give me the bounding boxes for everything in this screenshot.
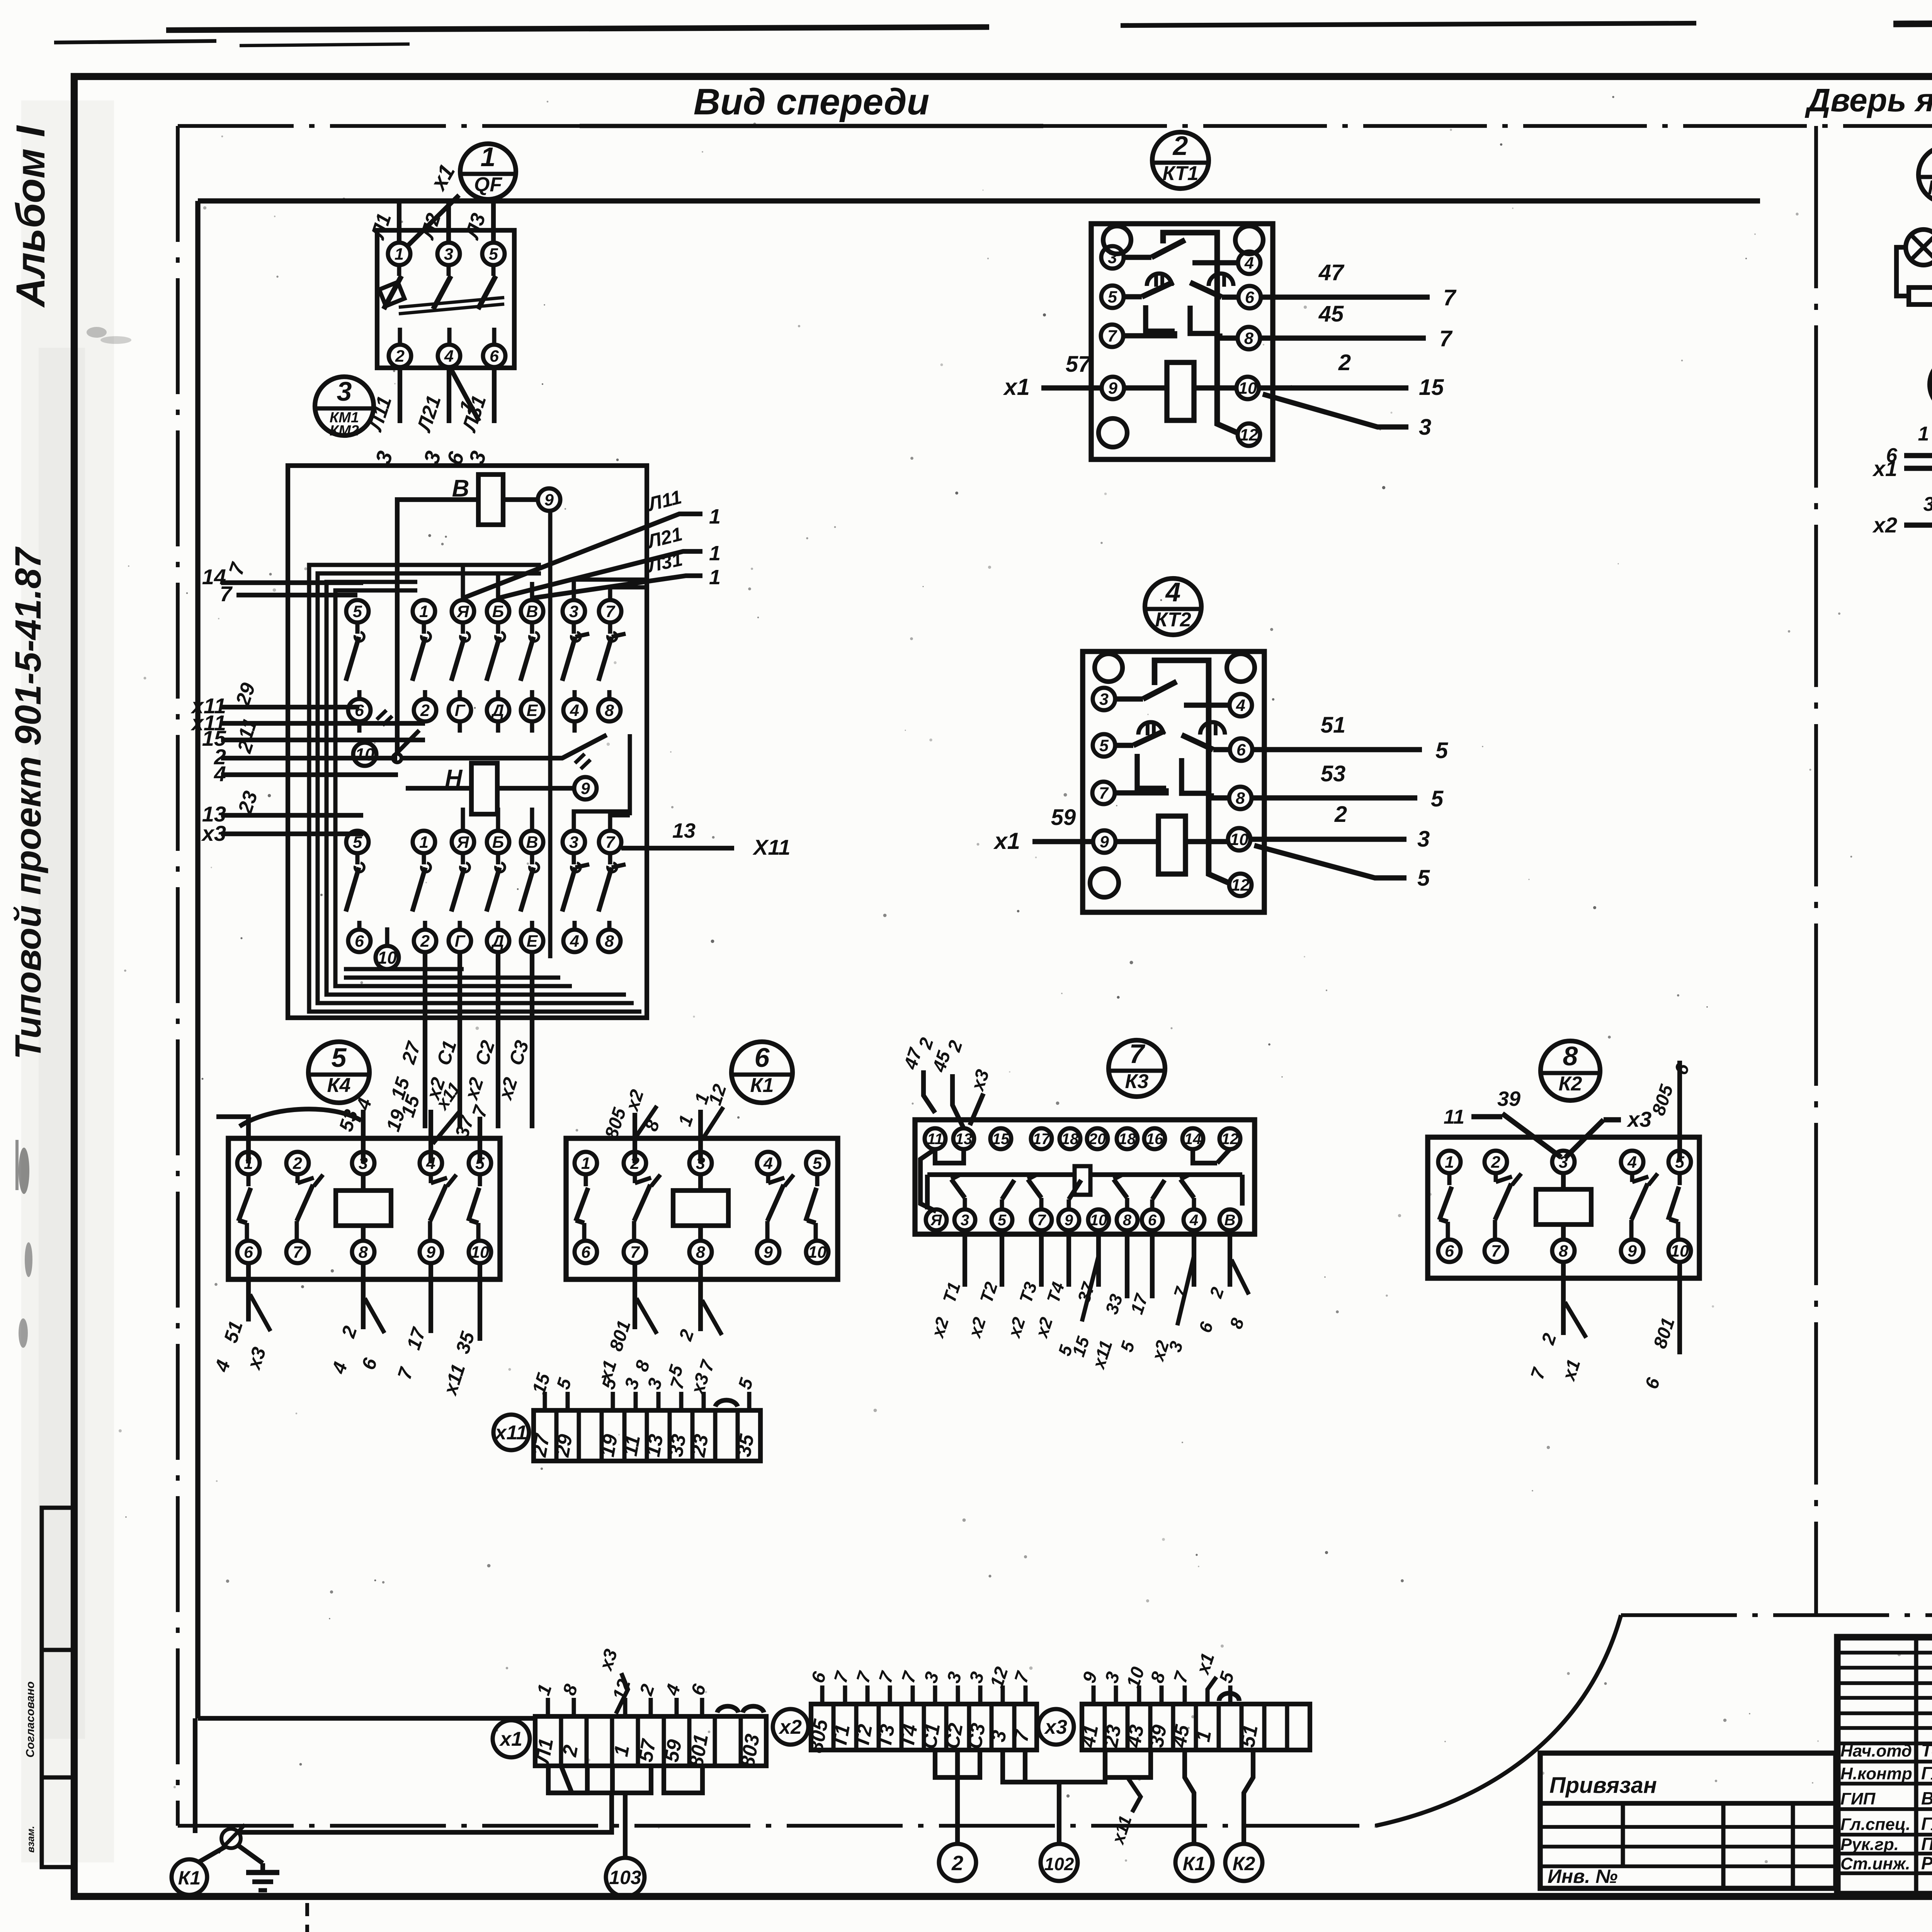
svg-text:2: 2 [951,1852,963,1875]
svg-text:В: В [526,602,538,621]
K3 wire 37/5/15 below pin10 [1096,1230,1101,1287]
svg-text:53: 53 [1321,761,1346,786]
svg-text:15: 15 [1419,375,1444,400]
svg-text:Л1: Л1 [531,1736,558,1767]
terminal strip х3 body [1082,1704,1310,1750]
K4 pin 3 [352,1152,374,1174]
svg-text:Альбом I: Альбом I [8,125,53,308]
K3 hooks pins 11-13 [935,1149,964,1163]
ground symbol [260,1863,265,1872]
х3 top stub 7 [1183,1685,1187,1704]
wire 47/7 from KT1 pin6 [1260,294,1430,299]
KM node junction [393,754,401,762]
wire L11-1 out of KM [463,514,702,598]
svg-text:39: 39 [1145,1723,1171,1749]
x2-x3 bottom bus [1003,1750,1105,1782]
relay designator 7/K3 [1109,1040,1165,1097]
K2 wire 805/6 above pin5 [1677,1061,1682,1162]
privyazan table [1540,1753,1836,1888]
K2 pin 6 [1438,1240,1461,1262]
panel outline corner curve [1376,1615,1621,1826]
svg-text:1: 1 [709,566,721,589]
svg-text:QF: QF [474,173,502,196]
KT1 pin 8 [1238,327,1260,349]
node 2 wire [955,1777,960,1844]
terminal strip х1 body [535,1716,766,1766]
KM pin 9 lower [574,777,597,799]
K1 wire 1/1/12 above pin3 [698,1110,703,1163]
node K1 ground [172,1859,207,1895]
svg-text:К2: К2 [1233,1853,1255,1874]
relay K2 body [1428,1137,1699,1278]
panel outline bottom-right dash-dot [1621,1613,1932,1617]
KM pin row 3 [346,831,369,853]
svg-text:х11: х11 [494,1422,527,1444]
svg-text:3: 3 [337,376,352,406]
x1 jumper arcs [717,1706,738,1713]
K3 left outer loop [920,1149,936,1211]
relay designator 6/K1 [731,1042,793,1103]
svg-text:8: 8 [1563,1041,1578,1071]
х11 top stub 5 [611,1392,615,1410]
svg-text:13: 13 [642,1432,668,1458]
K2 pin 10 [1668,1240,1691,1262]
svg-text:3: 3 [1923,493,1932,515]
svg-text:4: 4 [1244,254,1254,272]
K4 pin 9 [420,1241,442,1263]
svg-text:Дверь ящика ( вид со стороны м: Дверь ящика ( вид со стороны монтажа) [1805,82,1932,118]
wire x1-57 into KT1 pin9 [1041,385,1102,390]
wire x11 into KM [221,721,425,726]
KT1 contact 5 [1124,294,1142,299]
KM wire loop 2 [318,573,634,1003]
svg-text:7: 7 [1443,285,1457,310]
KT1 pin 10 [1236,377,1259,399]
svg-text:17: 17 [1033,1131,1051,1148]
svg-text:К1: К1 [1183,1853,1206,1874]
relay designator 5/K4 [308,1042,369,1103]
KM pin 10 lower [376,946,399,969]
svg-text:х2: х2 [1872,513,1897,537]
svg-text:8: 8 [1236,789,1245,808]
K1 pin 8 [689,1241,712,1263]
svg-text:х3: х3 [1626,1107,1651,1131]
K4 wire 17/7 below pin9 [429,1263,433,1333]
svg-text:7: 7 [605,602,616,621]
svg-text:20: 20 [1088,1131,1106,1148]
K2 pin 1 [1438,1151,1461,1173]
svg-text:12: 12 [1240,426,1258,444]
KT1 pin 12 [1238,423,1260,446]
х3 top stub 3 [1114,1685,1118,1704]
K1 wire x1/801/8 below pin7 [633,1263,637,1329]
svg-text:6: 6 [1236,741,1246,759]
х1 top stub 2 [649,1698,653,1716]
K3 wire 2/6/8 below pin B [1228,1230,1232,1287]
K2 pin 8 [1552,1240,1575,1262]
KM bottom exit wire 27/15 [423,952,427,1128]
svg-text:КМ2: КМ2 [330,423,359,439]
K4 pin 2 [286,1152,309,1174]
х2 top stub 7 [911,1685,915,1704]
svg-text:х3: х3 [201,821,226,845]
KT1 coil [1167,362,1194,420]
K4 coil [336,1190,391,1226]
K4 labels 37/7 above pin5 [478,1117,482,1163]
KM pin row 4 [348,930,371,952]
svg-text:1: 1 [709,505,721,528]
svg-text:К2: К2 [1559,1073,1582,1095]
terminal strip х2 body [811,1704,1037,1750]
K1 coil [673,1190,728,1226]
K1 contacts [584,1174,588,1186]
х3 top stub 9 [1092,1685,1096,1704]
KM coil V [478,474,503,525]
K3 contacts bottom row [963,1198,967,1209]
bottom-left side table [42,1508,75,1867]
svg-text:4: 4 [1189,1212,1198,1229]
terminal strip х1 designator circle [493,1720,530,1757]
svg-text:5: 5 [1435,738,1448,763]
svg-text:45: 45 [1168,1723,1194,1749]
QF pin 2 [389,345,411,367]
svg-text:3: 3 [569,602,578,621]
svg-text:8: 8 [1244,329,1253,348]
K3 wire x2/T2 below pin5 [1000,1230,1004,1287]
svg-text:11: 11 [927,1131,943,1148]
svg-text:23: 23 [687,1432,713,1459]
K3 wire x2/T1 below pin3 [963,1230,967,1287]
SB1 wire x2/3 to pin 22 [1904,522,1932,527]
K3 coil [1075,1166,1090,1195]
svg-text:6: 6 [1445,1242,1454,1260]
KT2 coil [1158,816,1185,874]
svg-text:5: 5 [332,1043,347,1073]
contactor designator 3/KM1 KM2 [315,377,374,435]
K2 pin 5 [1668,1151,1691,1173]
svg-text:Я: Я [456,833,469,852]
circuit breaker QF body [377,230,514,368]
wire to ground electrode [238,1845,263,1863]
terminal strip х11 designator circle [493,1415,529,1450]
QF contact blades [397,265,401,276]
svg-text:9: 9 [1100,833,1109,851]
sheet outer edge scan marks [166,27,989,30]
х11 top stub 5 [566,1392,570,1410]
svg-text:6: 6 [1245,288,1255,307]
K1 pin 6 [575,1241,597,1263]
svg-text:Д: Д [490,932,504,951]
KM bottom exit wire C2/x2 [496,952,500,1128]
KT1 pin 3 [1101,246,1124,269]
x3 x1 top hook [1207,1677,1216,1704]
svg-text:х1: х1 [993,828,1020,854]
х1 top stub 6 [700,1698,704,1716]
K4 wire from pin1 up-left [216,1117,248,1163]
time relay designator 2/KT1 [1152,132,1209,189]
QF pin 4 [438,345,460,367]
node 102 [1041,1844,1078,1881]
svg-text:7: 7 [1037,1212,1046,1229]
K2 contacts [1447,1173,1452,1185]
svg-text:9: 9 [426,1243,435,1262]
SB1 wire x1 to pin 21 [1904,460,1932,468]
terminal strip х11 body [534,1410,760,1461]
х3 top stub 10 [1137,1685,1141,1704]
wire L21-1 out of KM [498,551,702,598]
wire L1 into QF pin1 [397,202,401,243]
relay K3 body [915,1120,1255,1234]
KT2 pin 10 [1228,828,1250,850]
K1 pin 5 [806,1152,828,1174]
x2 bottom jumpers [935,1750,957,1777]
K3 wire 17/5 below pin6 [1150,1230,1155,1298]
QF trip square [379,282,404,306]
х2 top stub 3 [956,1685,960,1704]
K2 pin 7 [1485,1240,1507,1262]
K3 inner bus [927,1172,1075,1177]
svg-text:5: 5 [1108,288,1117,306]
K1 pin 2 [624,1152,646,1174]
panel outline top dash-dot [580,124,1043,128]
time relay designator 4/KT2 [1145,578,1201,635]
svg-text:8: 8 [359,1243,368,1262]
QF pin 3 [437,243,460,265]
cabinet interior boundary left lower stub [193,1718,197,1833]
node K1 wire [1185,1750,1194,1844]
K3 wire x2/T3 below pin7 [1039,1230,1044,1287]
svg-text:Нач.отд: Нач.отд [1840,1742,1912,1760]
KM wire loop 4 [335,590,572,986]
svg-text:К3: К3 [1125,1070,1149,1093]
х2 top stub 3 [933,1685,937,1704]
svg-text:Г: Г [455,701,466,720]
left margin scan smudges [19,1148,29,1194]
svg-text:6: 6 [355,701,364,720]
svg-text:Типовой проект 901-5-41.87: Типовой проект 901-5-41.87 [8,546,49,1060]
svg-text:51: 51 [1321,713,1346,738]
svg-text:х1: х1 [1003,374,1030,400]
time relay KT1 body [1091,224,1273,459]
svg-text:4: 4 [1627,1153,1637,1172]
KT2 pin 6 [1230,738,1252,761]
cabinet interior boundary bottom-left [198,1716,535,1721]
svg-text:4: 4 [444,347,454,366]
svg-text:23: 23 [1100,1723,1126,1749]
terminal strip х3 designator circle [1038,1709,1074,1745]
svg-text:10: 10 [471,1243,489,1262]
KT1 pin 7 [1101,325,1123,347]
K2 pin 3 [1552,1151,1575,1173]
svg-text:х1: х1 [499,1728,522,1750]
svg-text:8: 8 [1123,1212,1132,1229]
svg-text:1: 1 [481,142,496,172]
title block signature grid [1914,1637,1918,1894]
wire 51/5 from KT2 pin6 [1252,747,1422,752]
cabinet interior boundary top [198,198,1760,203]
QF mechanical link bar [399,298,504,307]
svg-text:5: 5 [1099,736,1109,755]
terminal strip х2 designator circle [773,1709,808,1745]
node K2 wire [1244,1750,1253,1844]
lamp HL1 symbol [1906,230,1932,265]
svg-text:4: 4 [214,762,226,786]
KT1 mounting holes [1103,226,1131,254]
х1 top stub 4 [675,1698,679,1716]
QF pin 1 [388,243,410,265]
х3 top stub 5 [1228,1685,1233,1704]
svg-text:Е: Е [527,701,538,720]
svg-text:взам.: взам. [25,1826,36,1853]
svg-text:Покошко: Покошко [1921,1834,1932,1854]
svg-text:59: 59 [1051,805,1076,830]
K2 wire 801/6 below pin10 [1677,1262,1682,1354]
K3 wire 7/x2/3 below pin4 [1192,1230,1196,1287]
svg-text:8: 8 [605,701,614,720]
х11 top stub 7 [679,1392,684,1410]
cabinet interior boundary left [195,201,200,1718]
svg-text:7: 7 [1439,326,1453,351]
wire L21 from QF pin4 [447,367,451,423]
svg-text:Ройзен: Ройзен [1921,1853,1932,1873]
svg-text:9: 9 [544,491,554,509]
KM pin row 2 [348,699,371,721]
KT2 pin 4 [1230,694,1252,716]
svg-text:7: 7 [1491,1242,1501,1260]
wire 7 into KM [236,593,357,597]
K3 bottom pin row [926,1209,947,1230]
svg-text:В: В [526,833,538,852]
KM coil V left wire [397,500,478,753]
svg-text:3: 3 [1099,690,1109,709]
wire L31 from QF pin6 [492,367,497,423]
svg-text:ГИП: ГИП [1840,1789,1876,1808]
svg-text:1: 1 [581,1154,590,1173]
svg-text:7: 7 [605,833,616,852]
K2 pin 4 [1621,1151,1643,1173]
svg-text:Е: Е [527,932,538,951]
K2 coil [1536,1189,1591,1225]
svg-text:29: 29 [551,1432,577,1459]
svg-text:9: 9 [1108,379,1117,398]
svg-text:К1: К1 [178,1867,201,1889]
KM coil V wire to pin 9 [503,497,538,502]
svg-text:7: 7 [1129,1039,1146,1069]
wire 4 into KM [221,772,398,777]
wire 45/7 from KT1 pin8 [1260,335,1426,340]
svg-text:Глузберг: Глузберг [1921,1814,1932,1834]
svg-text:10: 10 [1238,379,1257,398]
K4 pin 8 [352,1241,374,1263]
K4 wire 2/4/6 below pin8 [361,1263,366,1329]
KT2 pin 12 [1229,874,1252,896]
wire 2-2 into KM [221,756,397,760]
wire x11-29 into KM [221,705,359,709]
svg-text:10: 10 [1090,1212,1107,1229]
K1 wire 2/5/7 below pin8 [698,1263,703,1331]
wire 15-11 into KM [221,738,425,742]
KM vertical bus from pin9 [548,511,553,958]
svg-text:6: 6 [490,347,499,366]
KT2 pin 3 [1093,688,1115,710]
svg-text:КТ2: КТ2 [1155,609,1191,631]
svg-text:10: 10 [1670,1242,1689,1260]
х2 top stub 6 [820,1685,825,1704]
svg-text:27: 27 [528,1432,554,1459]
svg-text:6: 6 [244,1243,253,1262]
wire 2/15 from KT1 pin10 [1259,385,1408,390]
node K2 bottom [1225,1844,1262,1881]
х1 top stub 8 [572,1698,576,1716]
K4 pin 4 [420,1152,442,1174]
KT1 contact 3-4 and bracket to pin 12 [1124,255,1151,260]
х11 top stub х3 [702,1392,706,1410]
KM bottom exit wire C1/x2 [457,952,462,1128]
lamp designator 9/HL1 [1918,146,1932,203]
circuit breaker QF designator 1/QF [460,144,516,199]
svg-text:5: 5 [1417,866,1430,891]
svg-text:2: 2 [1491,1153,1500,1172]
KM pin row 1 [346,600,369,622]
svg-text:С3: С3 [963,1721,990,1751]
svg-text:19: 19 [596,1432,622,1458]
svg-text:3: 3 [569,833,578,852]
svg-text:HL1: HL1 [1928,177,1932,199]
x11 jumper arc [715,1400,738,1406]
svg-text:Волошин: Волошин [1921,1788,1932,1808]
SB1 wire 6/1 to pin 21 [1904,453,1932,458]
KM wire loop 3 [327,582,626,995]
K1 pin 10 [806,1241,828,1263]
K3 wire x2/T4 below pin9 [1066,1230,1071,1287]
KM wire junction to pin8 row2 [401,735,607,758]
wire L11 from QF pin2 [398,367,402,423]
KM wires row1 tops to loops [461,565,465,600]
х11 top stub 3 [656,1392,661,1410]
K1 wire 805/x2/8 above pin2 [633,1113,637,1163]
svg-text:3: 3 [1108,248,1117,267]
earth tap circle with slash [221,1829,241,1848]
KT2 contact 5 [1115,743,1133,748]
wire 13-23 into KM [221,813,363,818]
node K1 bottom [1175,1844,1213,1881]
х11 top stub 3 [634,1392,638,1410]
х2 top stub 12 [1001,1685,1005,1704]
contactor block KM1 KM2 outline [288,466,647,1018]
KM lower loop horizontals [344,976,560,980]
K2 pin 2 [1485,1151,1507,1173]
wire to K1 node [199,1847,225,1862]
svg-text:5: 5 [813,1154,822,1173]
push button designator 12/SB1 [1930,357,1932,412]
х2 top stub 7 [1024,1685,1028,1704]
svg-text:15: 15 [992,1131,1010,1148]
svg-text:35: 35 [733,1432,759,1458]
svg-text:51: 51 [1236,1723,1262,1749]
svg-text:Ст.инж.: Ст.инж. [1840,1854,1910,1873]
svg-text:11: 11 [619,1433,645,1458]
svg-text:Привязан: Привязан [1549,1773,1657,1798]
svg-text:18: 18 [1061,1131,1079,1148]
svg-text:х1: х1 [1872,456,1897,481]
panel outline bottom-left dash-dot [178,1824,1376,1828]
svg-text:Д: Д [490,701,504,720]
K2 wire x3 V into pin3 [1566,1120,1604,1157]
svg-text:Г: Г [455,932,466,951]
KM pin 9 upper [538,488,560,511]
svg-text:59: 59 [660,1738,686,1764]
svg-text:102: 102 [1044,1854,1074,1874]
